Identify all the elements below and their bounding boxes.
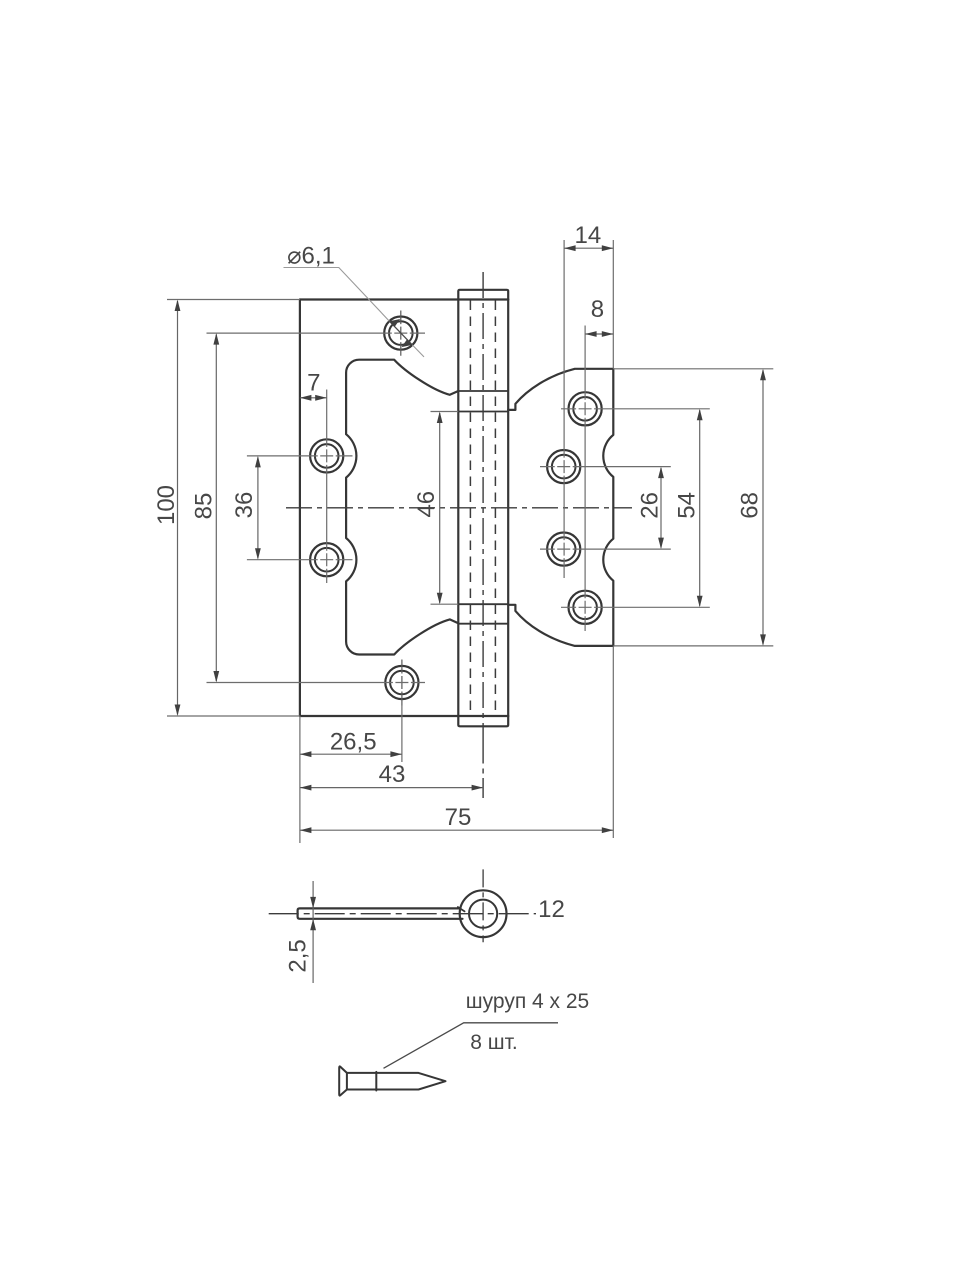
dim 2,5 [285, 881, 316, 983]
knuckle joint line upper outer [458, 390, 508, 392]
svg-text:⌀6,1: ⌀6,1 [287, 243, 335, 270]
svg-text:8: 8 [591, 296, 604, 323]
knuckle joint line upper inner [458, 411, 508, 413]
svg-text:46: 46 [413, 491, 440, 518]
svg-text:2,5: 2,5 [285, 939, 312, 972]
arrowheads [175, 245, 766, 833]
arrows 26,5 [300, 751, 312, 757]
dim line 68 [762, 370, 764, 644]
barrel center axis [482, 272, 484, 726]
dim line 46 [439, 413, 441, 603]
screw head [339, 1066, 347, 1095]
svg-text:26,5: 26,5 [330, 729, 377, 756]
dimension texts [153, 222, 764, 831]
diameter leader 6,1 [284, 268, 425, 357]
barrel top cap [458, 290, 508, 300]
barrel left edge [457, 300, 459, 717]
ext line 100 top [167, 299, 300, 301]
knuckle joint line lower inner [458, 603, 508, 605]
side barrel outer circle [460, 890, 507, 937]
svg-text:68: 68 [737, 492, 764, 519]
dim line 54 [699, 410, 701, 606]
barrel hidden line right [494, 301, 496, 716]
left leaf left edge [299, 300, 301, 717]
ext line 36 bottom / hole L3 horizontal [247, 559, 353, 561]
arrows 26 [658, 467, 664, 479]
ext line 85 top / hole L1 horizontal [207, 332, 426, 334]
arrows 36 [255, 456, 261, 468]
ext line 26,5 right [401, 706, 403, 763]
svg-text:26: 26 [637, 492, 664, 519]
svg-text:100: 100 [153, 485, 180, 525]
arrows 46 [437, 412, 443, 424]
dim line 26,5 [300, 753, 402, 755]
ext line left edge down [299, 716, 301, 843]
barrel knuckle joint lines [458, 391, 508, 624]
barrel hidden line left [469, 301, 471, 716]
hole L3 mid-left lower [310, 543, 343, 576]
dim line 26 [660, 468, 662, 548]
svg-text:43: 43 [379, 761, 406, 788]
dim line 43 [300, 787, 483, 789]
hole R3 mid-right lower [547, 533, 580, 566]
ext line 14 right / right edge extension up [612, 240, 614, 369]
ext line 68 bottom [613, 645, 773, 647]
arrows 85 [213, 333, 219, 345]
side leaf plate [298, 908, 463, 918]
ext line 100/85 bottom [167, 715, 300, 717]
arrows 8 [585, 331, 597, 337]
ext line 7 / holes L2 L3 vertical [326, 390, 328, 584]
left leaf top edge [300, 298, 508, 300]
side barrel inner circle [469, 900, 497, 928]
barrel axis extension below [482, 726, 484, 798]
ext line 26 bottom / hole R3 horizontal [540, 548, 671, 550]
svg-text:75: 75 [445, 804, 472, 831]
hole R2 mid-right upper [547, 450, 580, 483]
screw threaded body and point [376, 1073, 445, 1090]
arrows 7 [300, 395, 312, 401]
ext line 36 top / hole L2 horizontal [247, 455, 353, 457]
barrel hidden (dashed) lines [470, 301, 495, 716]
ext line 85 bottom / hole L4 horizontal [207, 682, 426, 684]
svg-text:7: 7 [307, 370, 320, 397]
hole L4 bottom-left [385, 660, 418, 706]
knuckle joint line lower outer [458, 623, 508, 625]
ext line 75 right [612, 646, 614, 838]
dim line 8 [585, 333, 613, 335]
svg-text:36: 36 [231, 492, 258, 519]
side view vertical centerline [482, 869, 484, 942]
label leader for screw [384, 1023, 559, 1069]
arrows 75 [300, 827, 312, 833]
left leaf inner cutout contour [346, 360, 458, 655]
extension + centerline thin lines [167, 240, 773, 843]
barrel right edge [507, 300, 509, 717]
dim line 14 [564, 247, 613, 249]
ext line 54 top / hole R1 horizontal [561, 408, 710, 410]
side view horizontal centerline [269, 913, 536, 915]
svg-text:12: 12 [538, 896, 565, 923]
ext line 68 top [613, 368, 773, 370]
dim line 36 [257, 457, 259, 558]
arrows 43 [300, 785, 312, 791]
dim line 85 [215, 335, 217, 682]
hole R1 top-right [569, 392, 602, 425]
hole L1 top-left [384, 311, 417, 356]
hole L2 mid-left upper [310, 439, 343, 472]
ext line 8 / holes R1 R4 vertical [584, 326, 586, 632]
arrows 54 [697, 409, 703, 421]
dim line 100 [177, 301, 179, 715]
svg-text:85: 85 [191, 493, 218, 520]
ext line 26 top / hole R2 horizontal [540, 466, 671, 468]
svg-text:8 шт.: 8 шт. [470, 1031, 518, 1054]
svg-text:54: 54 [673, 492, 700, 519]
arrows 68 [760, 369, 766, 381]
ext line 54 bottom / hole R4 horizontal [561, 606, 710, 608]
screw shank [347, 1072, 376, 1091]
dimension lines [178, 248, 764, 830]
dim line 7 [300, 397, 327, 399]
ext line 14 / holes R2 R3 vertical [563, 240, 565, 578]
left leaf bottom edge [300, 715, 508, 717]
hole R4 bottom-right [569, 591, 602, 624]
barrel bottom cap [458, 716, 508, 726]
horizontal centerline [286, 507, 632, 509]
side plate notch at barrel junction [458, 907, 465, 911]
dim line 75 [300, 829, 613, 831]
arrows 100 [175, 300, 181, 312]
right leaf outline [508, 369, 613, 646]
svg-text:14: 14 [575, 222, 602, 249]
ext line 46 top [431, 411, 459, 413]
arrows 14 [564, 245, 576, 251]
svg-text:шуруп 4 x 25: шуруп 4 x 25 [466, 990, 589, 1013]
ext line 46 bottom [431, 603, 459, 605]
